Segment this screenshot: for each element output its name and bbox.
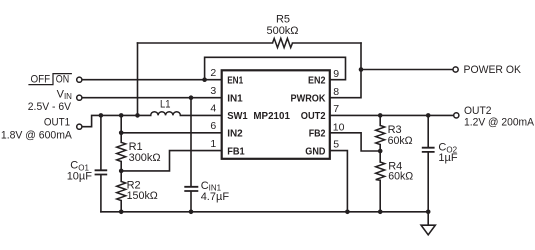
svg-text:500kΩ: 500kΩ: [266, 25, 298, 37]
svg-text:10: 10: [333, 121, 345, 133]
node CO2 bottom junction: [426, 210, 431, 215]
node R1-R2 FB junction: [119, 169, 124, 174]
wire R3 upper lead: [379, 115, 381, 125]
node EN1/EN2 tie junction: [202, 77, 207, 82]
svg-text:60kΩ: 60kΩ: [388, 170, 413, 182]
terminal VIN: [77, 95, 82, 100]
svg-text:L1: L1: [160, 99, 171, 111]
node CO2 top junction: [426, 113, 431, 118]
resistor R2 150k zigzag: [117, 181, 126, 200]
svg-text:OFF: OFF: [31, 74, 51, 86]
capacitor CO1 plates: [95, 170, 108, 174]
wire EN1-EN2 tie: [205, 57, 346, 79]
wire R1 to FB tap: [120, 162, 122, 171]
wire FB1 net: [121, 151, 222, 171]
node R1 branch junction: [119, 113, 124, 118]
wire GND pin drop: [330, 151, 348, 212]
wire R5 riser to OUT1 node: [137, 43, 139, 115]
svg-text:300kΩ: 300kΩ: [129, 152, 161, 164]
node IN2 tap junction: [119, 131, 124, 136]
svg-text:EN2: EN2: [308, 74, 326, 86]
node CIN1 bottom junction: [189, 210, 194, 215]
svg-text:1.8V @ 600mA: 1.8V @ 600mA: [1, 130, 73, 142]
wire PWROK riser: [330, 43, 361, 98]
svg-text:R5: R5: [276, 14, 290, 26]
wire R4 lower lead: [379, 180, 381, 212]
capacitor CO2 plates: [422, 148, 435, 152]
svg-text:FB1: FB1: [227, 145, 245, 157]
wire CIN1 upper lead: [190, 98, 192, 186]
terminal OFF/ON: [77, 77, 82, 82]
svg-text:1: 1: [210, 138, 216, 150]
wire R5 top rail left segment: [138, 42, 273, 44]
wire IN2 feed: [121, 132, 222, 134]
wire R5 top rail right segment: [293, 42, 362, 44]
svg-text:60kΩ: 60kΩ: [388, 135, 413, 147]
svg-text:ON: ON: [56, 74, 69, 86]
node R3 top junction: [378, 113, 383, 118]
wire OFF/ON to EN1: [82, 79, 222, 81]
wire R2 upper lead: [120, 171, 122, 182]
node CIN1 top junction: [189, 95, 194, 100]
wire OUT1 riser: [82, 115, 151, 126]
svg-text:IN2: IN2: [227, 128, 243, 140]
svg-text:6: 6: [210, 120, 216, 132]
svg-text:FB2: FB2: [309, 128, 326, 140]
svg-text:OUT2: OUT2: [464, 105, 492, 117]
svg-text:GND: GND: [305, 145, 326, 157]
node PWROK junction: [359, 67, 364, 72]
wire R3-R4 middle: [379, 145, 381, 162]
svg-text:OUT2: OUT2: [301, 110, 326, 122]
wire R2 lower lead: [120, 201, 122, 212]
wire CIN1 lower lead: [190, 192, 192, 212]
svg-text:MP2101: MP2101: [253, 110, 290, 122]
svg-text:PWROK: PWROK: [291, 92, 326, 104]
svg-text:3: 3: [210, 85, 216, 97]
capacitor CIN1 plates: [184, 187, 198, 191]
wire ground rail: [101, 211, 428, 213]
node R3-R4 FB2 junction: [378, 149, 383, 154]
svg-text:OUT1: OUT1: [44, 117, 70, 129]
svg-text:9: 9: [333, 68, 339, 80]
svg-text:1.2V @ 200mA: 1.2V @ 200mA: [464, 117, 535, 129]
svg-text:10µF: 10µF: [67, 171, 93, 183]
resistor R1 300k zigzag: [117, 142, 126, 161]
svg-text:4.7µF: 4.7µF: [201, 191, 230, 203]
svg-text:2: 2: [210, 67, 216, 79]
svg-text:2.5V - 6V: 2.5V - 6V: [28, 101, 72, 113]
svg-text:POWER OK: POWER OK: [464, 64, 522, 76]
wire CO2 upper lead: [427, 115, 429, 147]
resistor R3 60k zigzag: [376, 125, 385, 144]
node CO1 top junction: [99, 113, 104, 118]
wire R1 branch upper: [120, 115, 122, 142]
wire FB2 net: [330, 133, 380, 151]
terminal OUT2: [454, 113, 459, 118]
inductor L1: [151, 112, 181, 116]
resistor R5 500k zigzag: [273, 38, 293, 47]
ground: [421, 225, 435, 235]
svg-text:IN1: IN1: [227, 92, 243, 104]
svg-text:8: 8: [333, 86, 339, 98]
terminal OUT1: [77, 124, 82, 129]
node R5 riser junction: [135, 113, 140, 118]
wire OUT2 line: [330, 114, 454, 116]
node R4 bottom junction: [378, 210, 383, 215]
svg-text:4: 4: [210, 103, 216, 115]
node GND drop junction: [345, 210, 350, 215]
OFF/ON toggle decoration: [28, 74, 72, 85]
wire VIN to IN1: [82, 97, 222, 99]
svg-text:EN1: EN1: [227, 74, 243, 86]
node R2 bottom junction: [119, 210, 124, 215]
svg-text:150kΩ: 150kΩ: [127, 190, 158, 202]
svg-text:7: 7: [333, 103, 339, 115]
op-amp U1 MP2101 box: [222, 70, 330, 159]
svg-text:5: 5: [333, 139, 339, 151]
wire CO1 upper lead: [100, 115, 102, 169]
resistor R4 60k zigzag: [376, 162, 385, 180]
svg-text:VIN: VIN: [57, 89, 73, 101]
svg-text:1µF: 1µF: [438, 152, 457, 164]
wire CO1 lower lead: [100, 175, 102, 211]
svg-text:SW1: SW1: [227, 110, 248, 122]
wire CO2 lower lead: [427, 153, 429, 225]
wire POWER OK branch: [361, 69, 453, 71]
terminal POWER OK: [453, 67, 458, 72]
wire L1 to SW1: [180, 114, 221, 116]
